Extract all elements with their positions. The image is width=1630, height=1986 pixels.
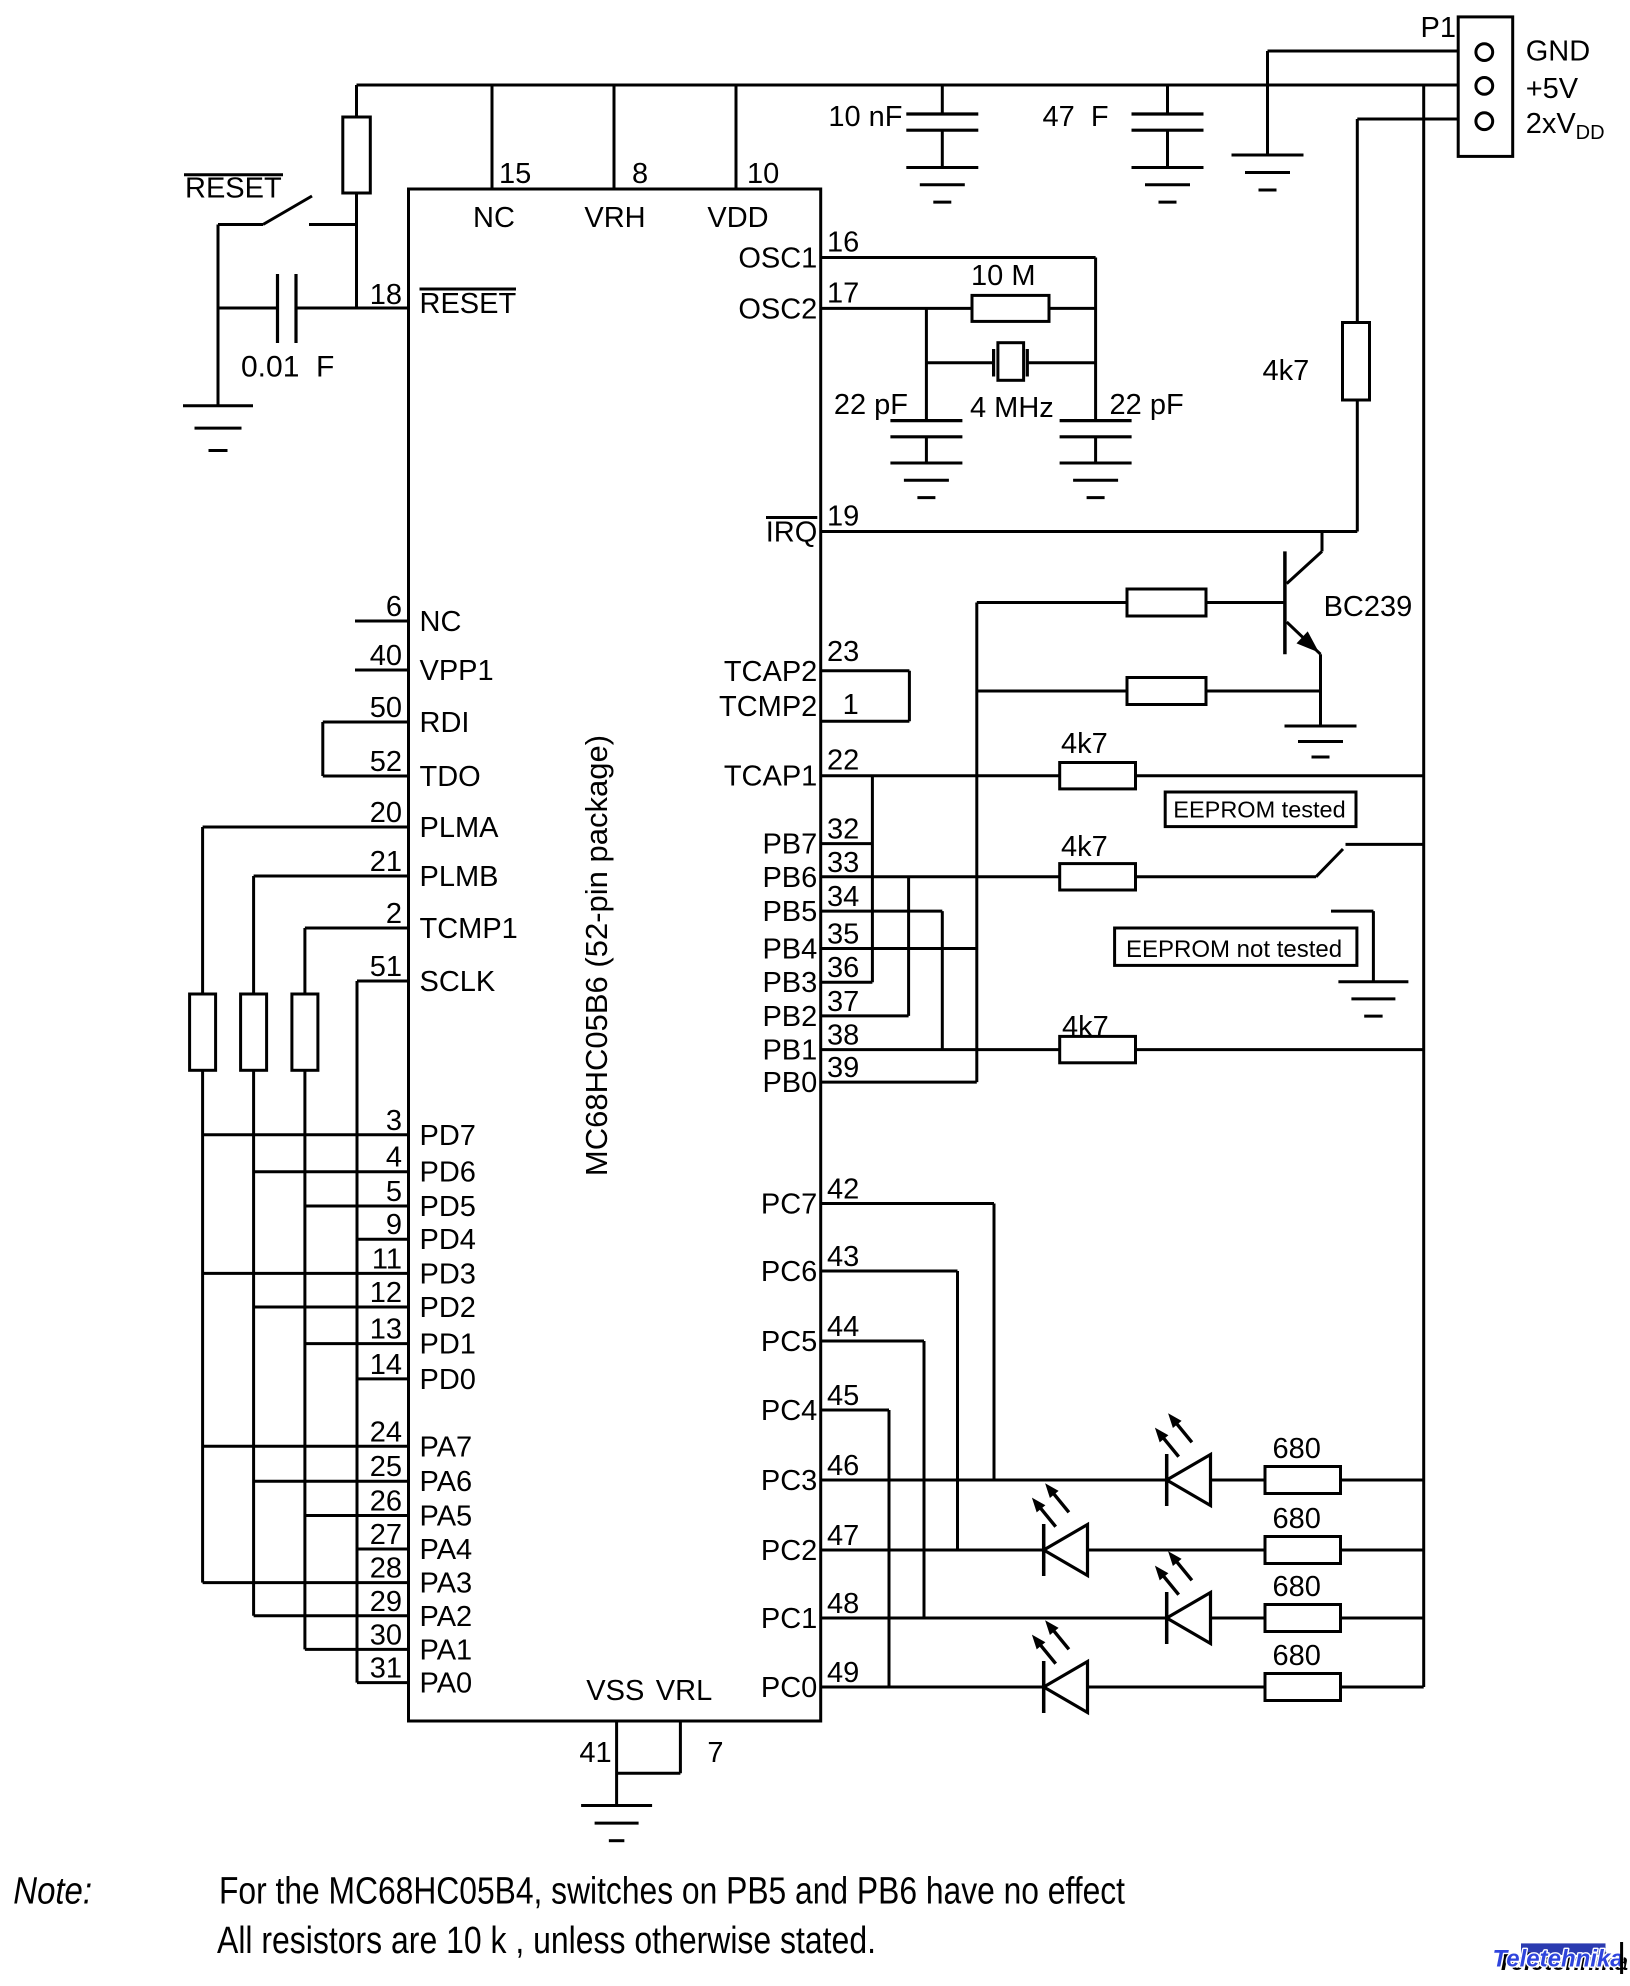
svg-text:PC5: PC5 xyxy=(761,1326,817,1358)
svg-text:35: 35 xyxy=(827,919,859,951)
svg-text:43: 43 xyxy=(827,1241,859,1273)
svg-text:PA7: PA7 xyxy=(420,1431,473,1463)
svg-text:42: 42 xyxy=(827,1174,859,1206)
svg-text:VDD: VDD xyxy=(707,202,768,234)
svg-text:6: 6 xyxy=(386,591,402,623)
svg-text:41: 41 xyxy=(579,1737,611,1769)
svg-text:TCAP2: TCAP2 xyxy=(724,656,817,688)
svg-text:MC68HC05B6 (52-pin package): MC68HC05B6 (52-pin package) xyxy=(579,735,614,1176)
svg-text:RDI: RDI xyxy=(420,707,470,739)
svg-text:TDO: TDO xyxy=(420,761,481,793)
svg-text:29: 29 xyxy=(370,1586,402,1618)
svg-text:8: 8 xyxy=(632,158,648,190)
svg-text:TCMP2: TCMP2 xyxy=(719,691,817,723)
svg-text:37: 37 xyxy=(827,986,859,1018)
svg-text:PD3: PD3 xyxy=(420,1258,476,1290)
svg-text:30: 30 xyxy=(370,1619,402,1651)
svg-text:22: 22 xyxy=(827,745,859,777)
svg-text:PD1: PD1 xyxy=(420,1329,476,1361)
svg-text:PB1: PB1 xyxy=(762,1035,817,1067)
svg-text:18: 18 xyxy=(370,279,402,311)
svg-text:38: 38 xyxy=(827,1020,859,1052)
svg-text:50: 50 xyxy=(370,692,402,724)
svg-text:4k7: 4k7 xyxy=(1061,831,1108,863)
svg-text:VRL: VRL xyxy=(656,1675,712,1707)
svg-text:48: 48 xyxy=(827,1588,859,1620)
svg-text:20: 20 xyxy=(370,797,402,829)
svg-text:OSC1: OSC1 xyxy=(738,243,817,275)
svg-text:PD7: PD7 xyxy=(420,1120,476,1152)
svg-text:PB2: PB2 xyxy=(762,1001,817,1033)
svg-text:22 pF: 22 pF xyxy=(1110,389,1184,421)
svg-text:PA1: PA1 xyxy=(420,1634,473,1666)
svg-text:PC2: PC2 xyxy=(761,1535,817,1567)
svg-text:PC3: PC3 xyxy=(761,1465,817,1497)
svg-text:40: 40 xyxy=(370,640,402,672)
svg-text:22 pF: 22 pF xyxy=(834,389,908,421)
svg-text:PA0: PA0 xyxy=(420,1668,473,1700)
svg-text:BC239: BC239 xyxy=(1324,591,1413,623)
svg-text:PB5: PB5 xyxy=(762,896,817,928)
svg-text:4k7: 4k7 xyxy=(1263,355,1310,387)
svg-text:45: 45 xyxy=(827,1380,859,1412)
svg-text:33: 33 xyxy=(827,847,859,879)
svg-text:21: 21 xyxy=(370,846,402,878)
svg-text:PB3: PB3 xyxy=(762,967,817,999)
svg-text:PD4: PD4 xyxy=(420,1224,476,1256)
svg-text:46: 46 xyxy=(827,1450,859,1482)
svg-text:All resistors are 10 k , unles: All resistors are 10 k , unless otherwis… xyxy=(217,1920,876,1962)
svg-text:PA3: PA3 xyxy=(420,1568,473,1600)
svg-text:SCLK: SCLK xyxy=(420,966,496,998)
svg-text:PC1: PC1 xyxy=(761,1603,817,1635)
svg-text:EEPROM tested: EEPROM tested xyxy=(1173,796,1345,822)
svg-text:10: 10 xyxy=(747,158,779,190)
svg-text:PD2: PD2 xyxy=(420,1292,476,1324)
svg-text:14: 14 xyxy=(370,1349,402,1381)
svg-text:9: 9 xyxy=(386,1209,402,1241)
svg-text:PC6: PC6 xyxy=(761,1256,817,1288)
svg-text:VSS: VSS xyxy=(586,1675,644,1707)
svg-text:31: 31 xyxy=(370,1653,402,1685)
svg-text:23: 23 xyxy=(827,636,859,668)
svg-text:VRH: VRH xyxy=(584,202,645,234)
svg-text:16: 16 xyxy=(827,227,859,259)
svg-text:51: 51 xyxy=(370,951,402,983)
svg-text:PD0: PD0 xyxy=(420,1364,476,1396)
svg-text:GND: GND xyxy=(1526,36,1590,68)
svg-text:2: 2 xyxy=(386,898,402,930)
svg-text:680: 680 xyxy=(1273,1433,1321,1465)
svg-text:Note:: Note: xyxy=(13,1871,92,1913)
svg-text:TCMP1: TCMP1 xyxy=(420,913,518,945)
svg-text:12: 12 xyxy=(370,1277,402,1309)
svg-text:26: 26 xyxy=(370,1486,402,1518)
svg-text:44: 44 xyxy=(827,1311,859,1343)
svg-text:+5V: +5V xyxy=(1526,73,1579,105)
svg-text:PD6: PD6 xyxy=(420,1157,476,1189)
svg-text:47: 47 xyxy=(827,1520,859,1552)
svg-text:PA6: PA6 xyxy=(420,1466,473,1498)
svg-text:PD5: PD5 xyxy=(420,1191,476,1223)
svg-text:PB7: PB7 xyxy=(762,829,817,861)
svg-text:P1: P1 xyxy=(1421,12,1456,44)
svg-text:PA2: PA2 xyxy=(420,1601,473,1633)
svg-text:7: 7 xyxy=(707,1737,723,1769)
svg-text:PB4: PB4 xyxy=(762,934,817,966)
svg-text:680: 680 xyxy=(1273,1571,1321,1603)
svg-text:11: 11 xyxy=(372,1243,402,1275)
svg-text:25: 25 xyxy=(370,1451,402,1483)
svg-text:Teletehnika: Teletehnika xyxy=(1493,1946,1624,1973)
svg-text:PB0: PB0 xyxy=(762,1067,817,1099)
svg-text:28: 28 xyxy=(370,1553,402,1585)
svg-text:5: 5 xyxy=(386,1176,402,1208)
svg-text:15: 15 xyxy=(499,158,531,190)
svg-text:680: 680 xyxy=(1273,1640,1321,1672)
svg-text:4: 4 xyxy=(386,1142,402,1174)
svg-text:0.01 F: 0.01 F xyxy=(241,351,334,384)
svg-text:4k7: 4k7 xyxy=(1061,728,1108,760)
svg-text:49: 49 xyxy=(827,1657,859,1689)
svg-text:NC: NC xyxy=(420,606,462,638)
svg-text:680: 680 xyxy=(1273,1503,1321,1535)
svg-text:PA4: PA4 xyxy=(420,1534,473,1566)
svg-text:10 M: 10 M xyxy=(971,260,1035,292)
svg-text:PLMB: PLMB xyxy=(420,861,499,893)
svg-text:NC: NC xyxy=(473,202,515,234)
svg-text:4k7: 4k7 xyxy=(1062,1011,1109,1043)
svg-text:17: 17 xyxy=(827,277,859,309)
svg-text:OSC2: OSC2 xyxy=(738,293,817,325)
svg-text:39: 39 xyxy=(827,1052,859,1084)
svg-text:47 F: 47 F xyxy=(1043,101,1109,133)
svg-text:3: 3 xyxy=(386,1105,402,1137)
svg-text:For the MC68HC05B4, switches o: For the MC68HC05B4, switches on PB5 and … xyxy=(219,1871,1125,1913)
svg-text:19: 19 xyxy=(827,501,859,533)
svg-text:PB6: PB6 xyxy=(762,862,817,894)
svg-text:VPP1: VPP1 xyxy=(420,655,494,687)
svg-text:RESET: RESET xyxy=(420,288,517,320)
svg-text:PA5: PA5 xyxy=(420,1501,473,1533)
svg-text:52: 52 xyxy=(370,746,402,778)
svg-text:10 nF: 10 nF xyxy=(828,101,902,133)
svg-text:PC4: PC4 xyxy=(761,1395,817,1427)
svg-text:PC0: PC0 xyxy=(761,1672,817,1704)
svg-text:36: 36 xyxy=(827,952,859,984)
svg-text:TCAP1: TCAP1 xyxy=(724,761,817,793)
svg-text:4 MHz: 4 MHz xyxy=(970,392,1054,424)
svg-text:13: 13 xyxy=(370,1314,402,1346)
svg-text:32: 32 xyxy=(827,814,859,846)
svg-text:EEPROM not tested: EEPROM not tested xyxy=(1126,936,1342,963)
svg-text:RESET: RESET xyxy=(185,173,282,205)
svg-text:27: 27 xyxy=(370,1519,402,1551)
svg-text:1: 1 xyxy=(843,689,859,721)
svg-text:PLMA: PLMA xyxy=(420,812,500,844)
svg-text:PC7: PC7 xyxy=(761,1189,817,1221)
svg-text:IRQ: IRQ xyxy=(766,517,818,549)
svg-text:24: 24 xyxy=(370,1416,402,1448)
svg-text:34: 34 xyxy=(827,881,859,913)
